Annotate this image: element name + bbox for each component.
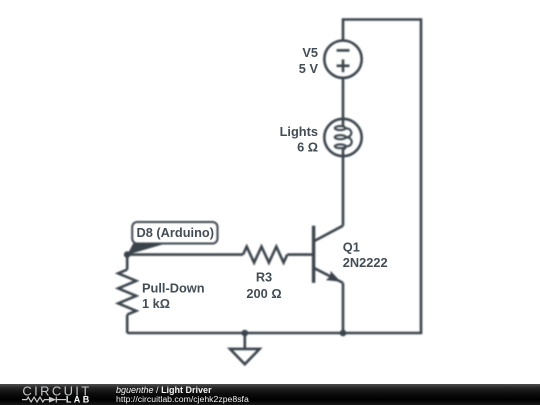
footer credit text: [116, 384, 249, 405]
svg-text:1 kΩ: 1 kΩ: [142, 296, 170, 311]
svg-text:2N2222: 2N2222: [343, 255, 388, 270]
ground: [230, 333, 260, 364]
node junction ground: [242, 330, 249, 337]
wire R3 to base bar: [287, 253, 313, 256]
svg-text:Pull-Down: Pull-Down: [142, 280, 205, 295]
svg-text:LAB: LAB: [66, 394, 92, 404]
wire emitter down: [342, 283, 345, 333]
label R3 value 200 ohm: [246, 270, 281, 301]
transistor Q1: [314, 226, 343, 283]
resistor R3: [243, 247, 287, 263]
svg-text:200 Ω: 200 Ω: [246, 286, 281, 301]
wire pull-down top lead: [126, 255, 129, 270]
node junction D8: [124, 251, 131, 258]
label V5 value 5 V: [299, 45, 319, 76]
resistor Pull-Down: [118, 270, 136, 315]
wire right side: [420, 18, 423, 333]
svg-text:V5: V5: [302, 45, 318, 60]
svg-text:R3: R3: [256, 270, 272, 285]
voltage source V5: [324, 41, 361, 78]
net flag D8 (Arduino) box: [132, 222, 217, 244]
wire top rail: [343, 20, 421, 41]
svg-text:Q1: Q1: [343, 239, 360, 254]
lamp Lights: [324, 119, 361, 156]
wire bottom rail: [127, 332, 422, 335]
node junction emitter: [340, 330, 347, 337]
CircuitLab logo: [0, 384, 110, 405]
wire lamp filament to collector: [342, 149, 345, 225]
svg-text:D8 (Arduino): D8 (Arduino): [137, 225, 214, 240]
wire source to lamp filament: [342, 78, 345, 127]
svg-text:5 V: 5 V: [299, 61, 319, 76]
wire pull-down bottom lead: [126, 315, 129, 333]
label Q1 value 2N2222: [343, 239, 388, 270]
label Lights value 6 ohm: [280, 124, 318, 155]
wire base: node to R3: [127, 253, 243, 256]
svg-text:6 Ω: 6 Ω: [297, 139, 318, 154]
footer bar: [0, 384, 540, 405]
emitter arrow of Q1: [326, 271, 341, 282]
label Pull-Down value 1 kohm: [142, 280, 205, 311]
net flag D8 (Arduino) pointer: [127, 243, 165, 254]
svg-text:Lights: Lights: [280, 124, 318, 139]
